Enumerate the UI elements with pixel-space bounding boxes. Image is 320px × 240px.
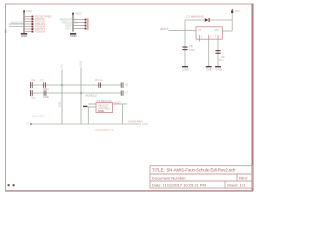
wire +BATT to IC1 input [169,29,197,31]
svg-text:GND: GND [183,67,189,71]
svg-text:VI: VI [198,28,201,32]
svg-text:GND: GND [70,34,76,38]
connector J1 pin 4 [24,22,45,26]
junction at net B wire crossing [80,92,82,94]
wire diode cathode to VCC [210,19,233,21]
wire diode anode [185,19,205,21]
connector J2 VCC supply symbol [72,11,82,15]
svg-text:+BATT: +BATT [160,27,169,31]
svg-text:Sheet: 1/1: Sheet: 1/1 [227,182,246,187]
wire IC1 output cap down [217,39,219,66]
capacitor C5 plates [98,82,101,87]
connector J2 body outline [87,18,89,30]
frame right edge thick [252,4,254,192]
svg-text:GND: GND [98,109,104,113]
connector J1 pin 1 [24,15,52,19]
connector J1 pin 3 [24,20,45,24]
wire vertical from IC2 left down [87,107,89,124]
svg-text:VCC: VCC [235,9,241,13]
svg-text:GND: GND [216,67,222,71]
svg-text:AGND22: AGND22 [86,94,98,98]
svg-text:C1: C1 [32,78,36,82]
svg-text:GND: GND [206,67,212,71]
connector J2 pin 3 [73,25,87,27]
svg-text:Date: 11/11/2017 10:29:21 PM: Date: 11/11/2017 10:29:21 PM [152,182,206,187]
frame border [6,4,253,191]
wire vertical net B [80,68,82,125]
svg-text:VCC: VCC [26,9,33,13]
svg-text:C3: C3 [40,79,44,83]
ground symbol GND J2 [70,33,76,38]
wire vertical net A [61,70,63,125]
wire vertical from IC2 output down [122,104,124,124]
svg-text:TITLE:: TITLE: [152,168,165,173]
wire into IC2 upper left [88,103,96,105]
connector J1 VCC supply symbol [23,9,33,13]
connector J1 pin 7 [24,30,45,34]
connector J1 pin 2 [24,17,45,21]
IC1 pin 1 stub [200,35,203,42]
ground symbol GND 3 [215,66,222,71]
connector J1 pin 5 [24,25,45,29]
svg-text:AIN2: AIN2 [78,60,82,66]
diode D1 [205,18,210,22]
wire net GND horizontal [31,123,142,125]
ground symbol GND 1 [182,66,189,71]
svg-text:NC: NC [106,106,110,110]
svg-text:VCC: VCC [75,11,82,15]
wire vertical +BATT rail [184,20,186,67]
svg-text:C2: C2 [32,96,36,100]
svg-text:GND: GND [142,122,148,126]
svg-text:100n: 100n [189,48,196,52]
wire VCC vertical [231,13,233,31]
wire net XTAL2 bottom [30,92,121,94]
svg-text:D1 MBRA140: D1 MBRA140 [187,15,205,19]
IC1 pin 3 stub [215,35,218,40]
capacitor C4 series plates bottom wire [44,90,47,95]
svg-text:C5 1u: C5 1u [95,78,103,82]
svg-text:VOUT: VOUT [114,100,122,104]
IC2 box [96,103,113,113]
svg-text:REV:: REV: [239,175,248,180]
junction at net A wire crossing [61,84,63,86]
capacitor C9 output plates [215,50,220,54]
wire net SCK into J1 [9,26,24,28]
svg-text:GND: GND [58,102,62,108]
capacitor C8 input plates [182,47,187,51]
connector J2 body line [72,15,74,32]
svg-text:RST: RST [66,26,72,30]
IC1 pin 2 stub [209,35,212,40]
svg-text:10u: 10u [219,58,224,62]
svg-text:C6: C6 [125,82,129,86]
wire net XTAL1 top [30,84,121,86]
bottom left mark dot 1 [8,184,10,186]
capacitor C1 left plates [30,82,33,88]
svg-text:sense gnd: sense gnd [32,114,45,118]
capacitor C3 series plates top wire [43,82,46,87]
frame bottom edge thick [5,190,253,192]
svg-text:AGND-PAD: AGND-PAD [128,119,143,123]
svg-text:MISO/SCK: MISO/SCK [11,20,25,24]
wire net MISO into J1 [9,20,25,24]
frame left tick [5,30,7,33]
ground symbol GND J1 [21,33,27,38]
wire from IC2 right [113,103,128,105]
bottom left mark dot 2 [13,184,15,186]
ground symbol GND 2 [206,66,213,71]
svg-text:PD6/06: PD6/06 [35,30,45,34]
svg-text:100n: 100n [43,95,50,99]
wire into IC2 lower left [88,106,97,108]
connector J2 pin 4 [73,28,87,30]
svg-text:SN-AMIS-Foun-Schule-Edl-Rev2.s: SN-AMIS-Foun-Schule-Edl-Rev2.sch [167,168,237,173]
connector J1 body line [23,12,25,33]
capacitor C8 label [189,44,196,52]
svg-text:AIN: AIN [59,64,63,68]
svg-text:GND: GND [21,34,27,38]
svg-text:G: G [26,122,28,126]
connector J2 pin 2 [73,22,87,24]
capacitor C6 end plates top [121,82,124,87]
wire IC1 output [222,30,232,32]
capacitor C2 left plates [30,90,33,96]
VCC supply symbol top right [231,9,240,13]
ground bar at IC2 [83,106,87,107]
IC1 regulator box [196,27,222,39]
wire IC1 gnd pin down [208,39,210,66]
junction GND net left end [30,123,32,125]
svg-text:Document Number:: Document Number: [152,175,187,180]
connector J2 pin 1 [73,19,87,21]
connector J1 pin 6 [24,27,45,31]
svg-text:C7: C7 [125,90,129,94]
capacitor C9 label [219,55,225,62]
svg-text:REG59930-LF: REG59930-LF [96,128,114,132]
title block outline [150,166,253,188]
capacitor C7 end plates bottom [121,90,124,95]
